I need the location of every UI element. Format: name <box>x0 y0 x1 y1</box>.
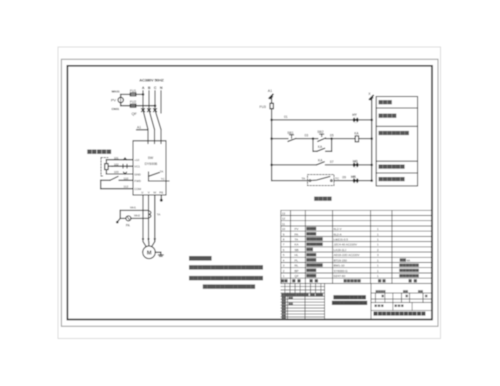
label 更改文件号 <box>296 293 309 296</box>
BOM remark row 3 控制柜内安装 <box>399 264 419 267</box>
BOM parts table <box>281 210 432 283</box>
self hold contact KA <box>317 148 325 151</box>
wire R to inverter <box>147 130 149 144</box>
breaker blade C <box>155 110 161 130</box>
company 上海远宇电子设备有限公司 <box>374 312 426 316</box>
label 共 张 <box>375 305 384 307</box>
svg-text:LA19-11J: LA19-11J <box>334 248 347 252</box>
note line 1 此控制系为一台变频控制一台电机 <box>189 265 263 269</box>
BOM name row 5 <box>306 253 316 256</box>
svg-text:AC380V 50HZ: AC380V 50HZ <box>139 77 164 82</box>
legend 变频运行指示 (running indication) <box>379 165 405 169</box>
wire T to inverter <box>160 130 162 144</box>
svg-text:FU2: FU2 <box>130 100 137 104</box>
svg-text:M: M <box>147 251 152 257</box>
svg-text:LMZJ1-0.5: LMZJ1-0.5 <box>334 238 349 242</box>
svg-text:GND: GND <box>134 173 140 177</box>
svg-text:6L2-A: 6L2-A <box>334 232 342 236</box>
node junction on phase C <box>154 104 157 107</box>
wire COM loop <box>100 180 102 188</box>
svg-text:01: 01 <box>284 115 288 119</box>
svg-text:SY6000-G: SY6000-G <box>334 269 349 273</box>
fault contact dashed box <box>308 175 335 186</box>
node junction on phase A <box>142 93 145 96</box>
label 处数 <box>286 293 291 296</box>
label 阶段标记 <box>376 290 386 292</box>
svg-text:KA: KA <box>295 243 299 247</box>
note line 2 通过远传压力表反馈信号控制压力 <box>189 276 263 280</box>
svg-text:6L2-V: 6L2-V <box>334 227 342 231</box>
rung 4 fault indication <box>272 180 309 182</box>
label 制图 <box>282 300 286 302</box>
svg-text:PV: PV <box>295 227 299 231</box>
wire 101 <box>106 159 133 161</box>
wire 103 <box>106 173 133 175</box>
svg-text:FWD: FWD <box>134 179 141 183</box>
svg-text:A1: A1 <box>268 89 272 93</box>
BOM remark row 1 控制柜内安装 <box>399 274 419 277</box>
svg-text:SB1: SB1 <box>287 131 293 135</box>
svg-text:TA: TA <box>157 213 161 217</box>
wire V <box>148 195 150 241</box>
svg-text:U: U <box>141 190 143 194</box>
svg-text:HG: HG <box>353 159 358 163</box>
signature blob 1 <box>289 297 293 299</box>
wire U <box>142 195 144 241</box>
arrowheads on motor leads <box>142 238 144 241</box>
svg-text:03: 03 <box>305 134 309 138</box>
run permissive switch <box>101 179 110 181</box>
svg-text:TA: TA <box>295 238 299 242</box>
outer drawing border <box>61 59 438 326</box>
meter ground stub <box>118 218 121 221</box>
BOM name row 10 <box>306 227 316 230</box>
legend box <box>376 97 417 186</box>
label 校对 <box>282 303 286 305</box>
title line 2 恒压供水（一拖一） <box>332 301 367 305</box>
fuse FU1 <box>130 93 136 96</box>
label 质量 <box>403 290 408 292</box>
svg-text:12: 12 <box>282 217 286 221</box>
wire voltmeter bottom <box>121 105 155 107</box>
BOM remark row 4 <box>400 258 406 261</box>
BOM name row 9 <box>306 232 316 235</box>
ammeter loop wire WH1 <box>120 209 148 211</box>
svg-text:VC1: VC1 <box>134 165 140 169</box>
svg-text:PL: PL <box>295 258 299 262</box>
svg-text:DY600B: DY600B <box>145 162 158 166</box>
wire 102 <box>112 165 133 167</box>
svg-text:BP: BP <box>295 269 299 273</box>
svg-text:JZC4-40 AC220V: JZC4-40 AC220V <box>334 243 357 247</box>
mass mark <box>406 295 408 297</box>
wire phase C <box>154 91 156 109</box>
svg-text:10: 10 <box>282 227 286 231</box>
BOM name row 6 <box>306 248 313 251</box>
BOM header 代号 <box>292 279 300 282</box>
svg-text:PE: PE <box>159 190 163 194</box>
lamp HY <box>353 117 359 123</box>
stage mark <box>382 295 384 297</box>
wire phase B <box>148 91 150 109</box>
svg-text:WH1: WH1 <box>130 206 136 210</box>
ammeter PA <box>126 216 131 221</box>
svg-text:BW1-10: BW1-10 <box>334 264 345 268</box>
label 审核 <box>282 308 286 310</box>
voltmeter PV <box>118 97 123 102</box>
svg-text:CN01: CN01 <box>112 107 120 111</box>
svg-text:BT19-150: BT19-150 <box>334 258 348 262</box>
svg-text:13: 13 <box>282 211 286 215</box>
label 分区 <box>291 293 296 296</box>
contact KA (run) <box>316 162 324 165</box>
terminal TC <box>331 180 333 182</box>
motor ground <box>155 251 161 253</box>
BOM name row 1 <box>306 274 316 277</box>
svg-text:WH2: WH2 <box>134 214 140 218</box>
BOM header 序号 <box>281 279 288 282</box>
svg-text:11: 11 <box>282 222 285 226</box>
wiper arrow <box>108 165 112 167</box>
BOM name row 2 <box>306 269 316 272</box>
paper edge (faint outer frame) <box>58 47 441 339</box>
svg-text:QF: QF <box>132 112 138 116</box>
label 第 张 <box>395 305 404 307</box>
svg-text:A: A <box>142 86 145 90</box>
svg-text:HR: HR <box>351 175 356 179</box>
fuse FU2 <box>130 104 136 107</box>
BOM header 备注 <box>409 279 417 282</box>
svg-text:A1: A1 <box>137 126 141 130</box>
rung 2 start/stop <box>270 137 273 140</box>
inner drawing border <box>67 66 432 320</box>
BOM name row 8 <box>306 237 322 240</box>
wire PE to ground point <box>160 195 162 199</box>
BOM header 名称 <box>310 279 318 282</box>
svg-text:07: 07 <box>330 160 334 164</box>
title line 1 运用压力表反馈的 <box>333 295 366 299</box>
BOM header 型号及规格 <box>344 279 361 282</box>
wire W <box>154 195 156 241</box>
svg-text:WA01: WA01 <box>112 89 121 93</box>
svg-text:09: 09 <box>342 176 346 180</box>
left control bus <box>271 97 273 103</box>
note line 3 频率等使其保持恒定 <box>203 284 255 288</box>
breaker blade A <box>143 110 148 130</box>
svg-text:RL: RL <box>295 264 299 268</box>
svg-text:FU3: FU3 <box>260 105 267 109</box>
svg-text:110: 110 <box>124 176 129 180</box>
svg-text:W: W <box>153 190 156 194</box>
relay coil KA <box>355 136 358 142</box>
label 签名 <box>310 293 315 296</box>
svg-text:+10: +10 <box>134 158 139 162</box>
svg-text:N: N <box>160 86 163 90</box>
svg-text:HY: HY <box>352 113 357 117</box>
label 比例 <box>418 290 423 292</box>
BOM name row 4 <box>306 258 316 261</box>
wire S to inverter <box>154 130 156 144</box>
svg-text:B: B <box>148 86 151 90</box>
svg-text:103: 103 <box>114 170 119 174</box>
svg-text:TC: TC <box>161 177 165 181</box>
svg-text:PA: PA <box>295 232 299 236</box>
legend 变频故障指示 (fault indication) <box>379 177 405 181</box>
label 工艺 <box>282 306 286 308</box>
lamp HR <box>353 178 359 184</box>
loop left wire <box>119 210 121 218</box>
svg-text:HL: HL <box>295 253 299 257</box>
signature blob 2 <box>289 303 293 305</box>
BOM remark row 2 控制柜内安装 <box>399 269 419 272</box>
label 设计 <box>282 297 286 299</box>
svg-text:C: C <box>154 86 157 90</box>
ammeter loop wire WH2 <box>120 217 126 219</box>
svg-text:PV: PV <box>111 99 117 103</box>
svg-text:V: V <box>148 190 150 194</box>
label 远传压力表 (remote pressure gauge) <box>87 150 111 154</box>
legend 电源显示 (power indication) <box>379 114 397 118</box>
circuit breaker QF contact marks <box>142 109 145 112</box>
wire neutral N <box>160 91 162 113</box>
svg-text:101: 101 <box>114 156 119 160</box>
motor M1 <box>143 246 156 259</box>
rung 3 run indication <box>270 164 273 167</box>
svg-text:SW: SW <box>148 156 154 160</box>
svg-text:DZ47-60: DZ47-60 <box>334 274 346 278</box>
label 年月日 <box>316 293 324 296</box>
title block <box>281 283 432 319</box>
BOM name row 3 <box>306 263 322 266</box>
label 日期 <box>282 317 286 319</box>
label 标记 <box>281 293 286 296</box>
svg-text:102: 102 <box>114 162 119 166</box>
inverter (VFD) U1 box <box>133 141 166 195</box>
legend 变频启/停按钮 (start/stop buttons) <box>379 131 409 135</box>
wire phase A <box>142 91 144 109</box>
svg-text:TA: TA <box>160 170 164 174</box>
label 标准化 <box>282 311 286 313</box>
label 批准 <box>282 314 286 316</box>
inverter fault relay contact <box>148 172 150 181</box>
caption 二次回路 (secondary circuit) <box>314 197 331 201</box>
fault contact blade <box>311 177 330 181</box>
svg-text:05: 05 <box>330 133 334 137</box>
svg-text:4A: 4A <box>407 258 411 262</box>
lamp HG <box>353 162 359 168</box>
pressure gauge dashed box <box>101 158 108 176</box>
BOM table contents <box>282 211 419 278</box>
wire voltmeter top <box>121 93 143 95</box>
right control bus <box>371 99 373 181</box>
scale mark <box>425 295 427 297</box>
svg-text:FU1: FU1 <box>130 89 137 93</box>
self hold branch <box>312 139 314 152</box>
svg-text:AD16-22D AC220V: AD16-22D AC220V <box>334 253 360 257</box>
svg-text:QF: QF <box>295 274 299 278</box>
legend 熔断器 (fuse) <box>379 100 392 104</box>
rung 1 wire 01 <box>272 119 354 121</box>
motor leads converge <box>143 242 146 247</box>
BOM header 数量 <box>378 279 386 282</box>
BOM name row 7 <box>306 243 322 246</box>
potentiometer inside gauge <box>105 164 108 170</box>
svg-text:SB2: SB2 <box>317 130 323 134</box>
current transformer TA <box>149 211 151 218</box>
fuse FU3 <box>270 103 273 108</box>
svg-text:SB: SB <box>295 248 299 252</box>
svg-text:112: 112 <box>124 185 129 189</box>
breaker blade B <box>149 110 155 130</box>
notes title 技术说明: <box>189 256 212 261</box>
